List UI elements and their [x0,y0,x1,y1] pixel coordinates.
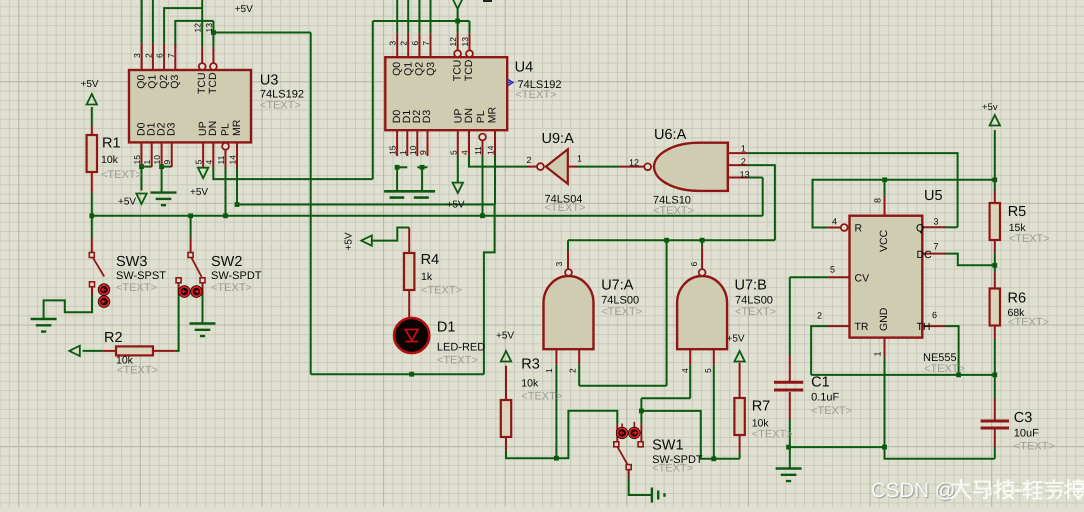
svg-text:<TEXT>: <TEXT> [516,89,557,101]
svg-text:+5V: +5V [496,331,514,342]
svg-text:MR: MR [231,119,243,136]
svg-text:6: 6 [932,310,937,320]
svg-text:<TEXT>: <TEXT> [260,100,301,112]
svg-text:1: 1 [398,150,408,155]
svg-text:C3: C3 [1014,410,1033,426]
svg-text:<TEXT>: <TEXT> [211,282,252,294]
svg-text:D3: D3 [166,122,178,136]
svg-text:5: 5 [703,368,713,373]
svg-text:SW2: SW2 [211,254,242,270]
svg-text:4: 4 [680,368,690,373]
svg-text:<TEXT>: <TEXT> [601,306,642,318]
svg-text:TCU: TCU [452,60,464,82]
svg-text:R5: R5 [1008,204,1027,220]
svg-text:5: 5 [830,265,835,275]
svg-text:DN: DN [207,121,219,136]
svg-text:1: 1 [577,154,582,164]
svg-text:3: 3 [934,217,939,227]
svg-text:<TEXT>: <TEXT> [1009,233,1050,245]
svg-text:PL: PL [475,110,487,123]
svg-text:D1: D1 [437,320,456,336]
svg-text:13: 13 [460,37,470,47]
svg-text:+5v: +5v [982,102,998,113]
svg-text:TCD: TCD [207,72,219,94]
svg-text:DN: DN [463,108,475,123]
svg-text:12: 12 [448,37,458,47]
svg-text:2: 2 [568,368,578,373]
svg-text:R7: R7 [752,399,771,415]
svg-text:1k: 1k [421,271,433,283]
svg-text:SW-SPDT: SW-SPDT [211,270,262,282]
svg-text:74LS00: 74LS00 [601,295,639,307]
svg-text:13: 13 [204,23,214,33]
svg-text:U9:A: U9:A [542,131,575,147]
svg-text:<TEXT>: <TEXT> [101,169,142,181]
svg-text:3: 3 [554,262,564,267]
svg-text:6: 6 [155,53,165,58]
svg-text:6: 6 [689,262,699,267]
svg-text:12: 12 [193,23,203,33]
svg-text:4: 4 [832,217,837,227]
svg-text:<TEXT>: <TEXT> [735,306,776,318]
svg-text:<TEXT>: <TEXT> [752,429,793,441]
svg-text:2: 2 [817,311,822,321]
svg-text:10k: 10k [521,378,539,390]
svg-text:+5V: +5V [727,334,745,345]
svg-text:2: 2 [527,155,532,165]
svg-text:9: 9 [418,150,428,155]
svg-text:R3: R3 [521,357,540,373]
svg-text:Q3: Q3 [425,62,437,76]
svg-text:<TEXT>: <TEXT> [653,205,694,217]
svg-text:+5V: +5V [190,187,208,198]
svg-text:R4: R4 [421,252,440,268]
svg-text:10: 10 [408,145,418,155]
svg-text:DC: DC [917,249,933,261]
svg-text:<TEXT>: <TEXT> [1008,317,1049,329]
svg-text:R1: R1 [102,136,121,152]
svg-text:VCC: VCC [878,229,890,252]
svg-text:C1: C1 [811,375,830,391]
svg-text:1: 1 [544,368,554,373]
svg-text:5: 5 [448,150,458,155]
svg-text:1: 1 [142,160,152,165]
svg-text:1: 1 [741,144,746,154]
svg-text:MR: MR [487,106,499,123]
svg-text:LED-RED: LED-RED [437,342,485,354]
svg-text:SW3: SW3 [116,254,147,270]
svg-text:+5V: +5V [344,232,355,250]
svg-text:10: 10 [152,155,162,165]
svg-text:Q0: Q0 [391,62,403,76]
svg-text:13: 13 [740,170,750,180]
svg-text:+5V: +5V [81,79,99,90]
svg-text:14: 14 [228,155,238,165]
svg-text:SW-SPST: SW-SPST [116,270,166,282]
svg-text:R6: R6 [1008,291,1027,307]
svg-text:Q1: Q1 [147,75,159,89]
svg-text:TR: TR [855,321,869,333]
svg-text:0.1uF: 0.1uF [811,392,839,404]
svg-text:Q: Q [916,223,924,235]
svg-text:10k: 10k [101,154,119,166]
svg-text:+5V: +5V [118,197,136,208]
svg-text:<TEXT>: <TEXT> [545,202,586,214]
svg-text:TH: TH [917,321,931,333]
svg-text:R: R [855,223,863,235]
svg-text:<TEXT>: <TEXT> [924,363,965,375]
svg-text:U7:A: U7:A [601,278,634,294]
svg-text:U3: U3 [260,73,279,89]
svg-text:TCU: TCU [196,72,208,94]
svg-text:Q3: Q3 [169,75,181,89]
svg-text:74LS00: 74LS00 [735,295,773,307]
svg-text:U6:A: U6:A [654,127,687,143]
svg-text:2: 2 [741,157,746,167]
svg-text:+5V: +5V [447,200,465,211]
svg-text:7: 7 [421,41,431,46]
svg-text:Q2: Q2 [158,75,170,89]
svg-text:U5: U5 [924,188,943,204]
svg-text:U4: U4 [515,60,534,76]
svg-text:<TEXT>: <TEXT> [421,285,462,297]
svg-text:2: 2 [399,41,409,46]
svg-text:Q0: Q0 [136,75,148,89]
svg-text:1: 1 [873,351,883,356]
svg-text:TCD: TCD [463,59,475,81]
svg-text:12: 12 [629,158,639,168]
svg-text:<TEXT>: <TEXT> [437,355,478,367]
svg-text:<TEXT>: <TEXT> [117,365,158,377]
svg-text:11: 11 [473,146,483,155]
svg-text:9: 9 [162,160,172,165]
svg-text:3: 3 [132,53,142,58]
svg-text:D3: D3 [421,110,433,124]
svg-text:<TEXT>: <TEXT> [116,282,157,294]
svg-text:4: 4 [460,150,470,155]
svg-text:<TEXT>: <TEXT> [811,405,852,417]
svg-text:10uF: 10uF [1014,428,1039,440]
svg-text:15: 15 [132,155,142,165]
svg-text:SW1: SW1 [652,438,683,454]
svg-text:7: 7 [934,242,939,252]
svg-text:3: 3 [388,41,398,46]
svg-text:<TEXT>: <TEXT> [652,463,693,475]
svg-text:Q1: Q1 [402,62,414,76]
svg-text:6: 6 [410,41,420,46]
svg-text:<TEXT>: <TEXT> [1014,441,1055,453]
svg-text:4: 4 [204,160,214,165]
svg-text:CV: CV [855,273,870,285]
svg-text:Q2: Q2 [414,62,426,76]
svg-text:2: 2 [143,53,153,58]
svg-text:GND: GND [878,307,890,331]
svg-text:7: 7 [166,53,176,58]
svg-text:+5V: +5V [235,4,253,15]
svg-text:R2: R2 [104,330,123,346]
svg-text:CSDN @: CSDN @ [871,479,956,502]
svg-text:8: 8 [873,198,883,203]
svg-text:14: 14 [486,145,496,155]
svg-text:5: 5 [194,160,204,165]
svg-text:<TEXT>: <TEXT> [521,391,562,403]
svg-text:PL: PL [219,123,231,136]
svg-text:15: 15 [388,145,398,155]
svg-text:U7:B: U7:B [735,278,767,294]
svg-text:11: 11 [216,155,226,164]
